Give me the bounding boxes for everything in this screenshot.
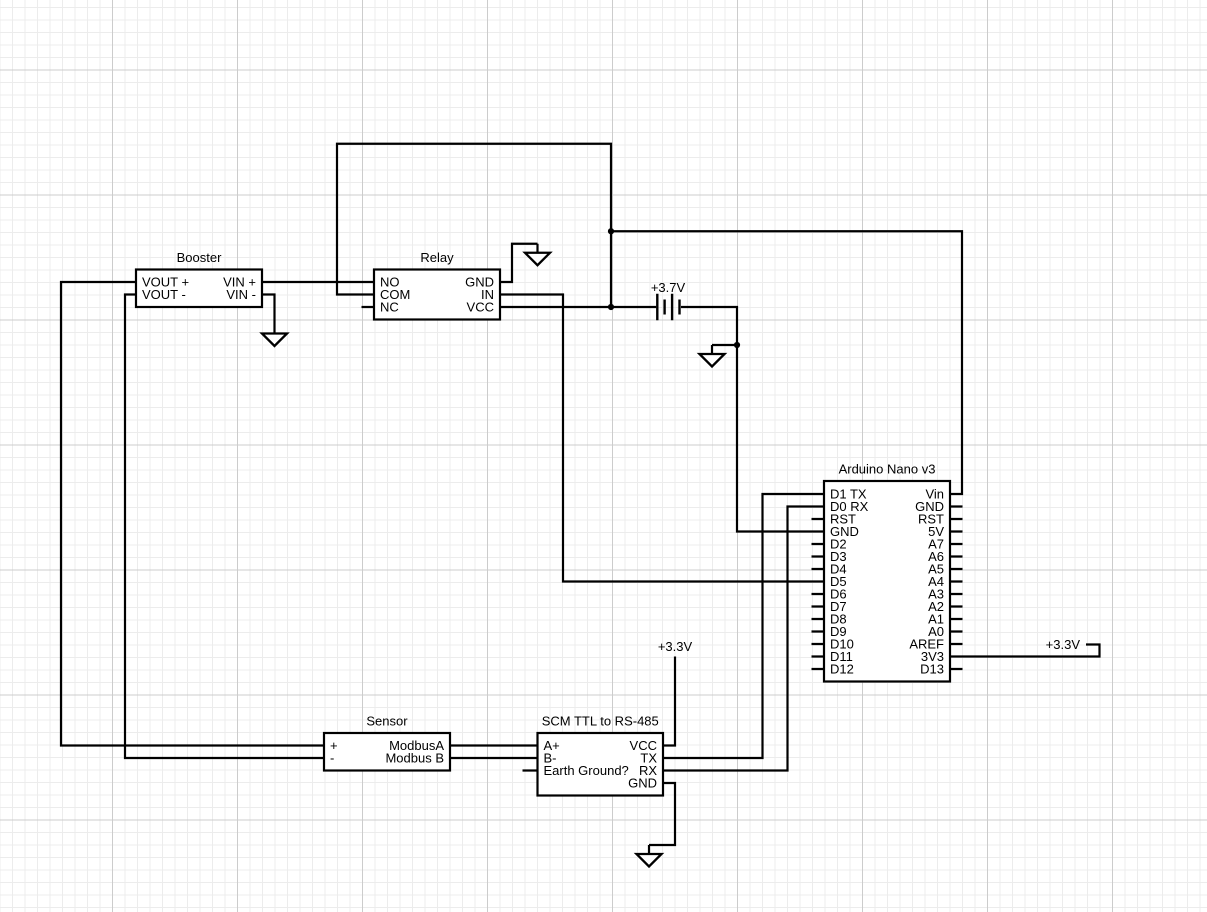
svg-text:NC: NC bbox=[380, 300, 399, 315]
svg-text:Relay: Relay bbox=[420, 250, 454, 265]
svg-text:Booster: Booster bbox=[177, 250, 222, 265]
svg-text:D13: D13 bbox=[920, 662, 944, 677]
svg-text:D12: D12 bbox=[830, 662, 854, 677]
svg-text:-: - bbox=[330, 751, 334, 766]
svg-text:Arduino Nano v3: Arduino Nano v3 bbox=[839, 462, 936, 477]
svg-text:Modbus B: Modbus B bbox=[385, 751, 444, 766]
svg-text:+3.3V: +3.3V bbox=[1046, 637, 1081, 652]
svg-text:SCM TTL to RS-485: SCM TTL to RS-485 bbox=[542, 714, 659, 729]
svg-text:+3.7V: +3.7V bbox=[651, 280, 686, 295]
svg-text:Earth Ground?: Earth Ground? bbox=[544, 763, 629, 778]
svg-text:VOUT -: VOUT - bbox=[142, 287, 186, 302]
svg-text:VCC: VCC bbox=[467, 300, 494, 315]
svg-text:VIN -: VIN - bbox=[226, 287, 256, 302]
svg-text:GND: GND bbox=[628, 776, 657, 791]
svg-text:Sensor: Sensor bbox=[366, 714, 408, 729]
svg-text:+3.3V: +3.3V bbox=[658, 639, 693, 654]
